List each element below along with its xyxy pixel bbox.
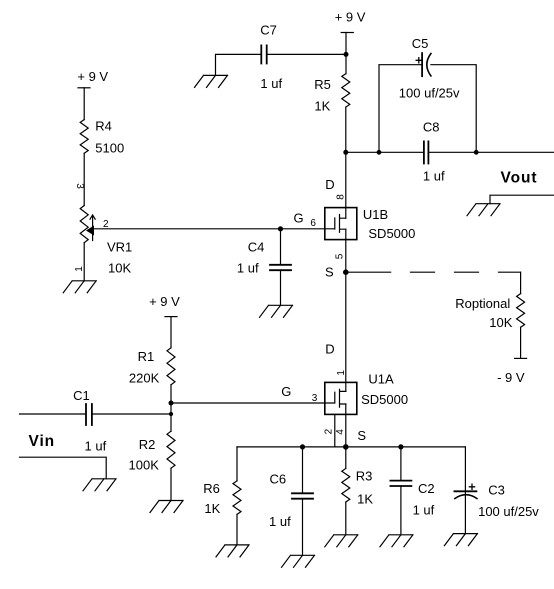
- wire R5 to drain bus: [345, 107, 347, 152]
- capacitor C8: [424, 141, 429, 163]
- svg-text:6: 6: [310, 218, 316, 229]
- wire ground to C7: [216, 54, 262, 75]
- node C2/bus: [398, 444, 403, 449]
- svg-text:5: 5: [335, 253, 346, 259]
- svg-text:VR1: VR1: [107, 239, 132, 254]
- wire C1 to node: [92, 413, 171, 415]
- wire C4 to ground: [280, 270, 282, 305]
- pin 2 of VR1: [103, 219, 109, 230]
- pin 1: [336, 370, 347, 376]
- svg-text:5100: 5100: [95, 140, 124, 155]
- capacitor C1: [86, 404, 92, 425]
- resistor R1: [167, 348, 175, 385]
- svg-text:2: 2: [103, 219, 109, 230]
- ground (R2): [150, 501, 183, 513]
- potentiometer VR1: [80, 206, 88, 243]
- power +9V (top center): [335, 10, 366, 25]
- svg-text:1: 1: [336, 370, 347, 376]
- svg-text:1 uf: 1 uf: [423, 168, 445, 183]
- pin S label U1B: [325, 265, 334, 280]
- svg-text:C1: C1: [73, 388, 90, 403]
- resistor R2: [167, 431, 175, 468]
- svg-text:100 uf/25v: 100 uf/25v: [478, 504, 539, 519]
- svg-text:1K: 1K: [357, 492, 373, 507]
- pin 5: [335, 253, 346, 259]
- Vin ground stub: [20, 457, 107, 479]
- mosfet U1B: [325, 208, 357, 240]
- node pin4/bus: [343, 444, 349, 450]
- Vout ground stub: [490, 195, 554, 204]
- svg-text:C4: C4: [248, 240, 265, 255]
- svg-text:C6: C6: [270, 472, 287, 487]
- capacitor C2: [390, 481, 411, 486]
- wire C7 to R5 node: [267, 53, 346, 55]
- pin D label U1A: [325, 342, 334, 357]
- svg-text:R3: R3: [356, 469, 373, 484]
- mosfet U1A: [325, 382, 357, 414]
- ground (Vin): [83, 479, 116, 491]
- wire Roptional to -9V: [520, 327, 522, 358]
- capacitor C4: [270, 265, 291, 270]
- wire VR1 to ground: [83, 243, 85, 281]
- VR1 wiper arrow: [90, 215, 95, 241]
- wire R4 to VR1: [83, 153, 85, 205]
- svg-text:3: 3: [74, 183, 85, 189]
- Vout label: [501, 170, 538, 187]
- node C7/R5 junction: [344, 52, 349, 57]
- ground (C4): [260, 305, 293, 317]
- pin 4: [335, 429, 346, 435]
- wire dashed segment to Roptional: [411, 271, 521, 273]
- Vin label: [29, 433, 56, 450]
- wire U1B source down: [345, 229, 347, 391]
- svg-text:1 uf: 1 uf: [269, 514, 291, 529]
- svg-text:220K: 220K: [129, 371, 160, 386]
- svg-text:4: 4: [335, 429, 346, 435]
- drain bus wire to right edge: [346, 151, 554, 153]
- node R5/D junction: [343, 150, 348, 155]
- node C1 wire: [169, 412, 173, 416]
- svg-text:R6: R6: [203, 481, 220, 496]
- pin 2 wire U1A: [334, 414, 336, 447]
- node C5 left leg: [377, 150, 382, 155]
- resistor Roptional: [517, 294, 525, 328]
- wire C5 loop right: [431, 65, 476, 153]
- svg-text:S: S: [325, 265, 334, 280]
- wire S node solid segment: [346, 271, 391, 273]
- ground (R6): [216, 545, 249, 557]
- wire bus to C3: [464, 447, 466, 534]
- svg-text:SD5000: SD5000: [361, 392, 408, 407]
- resistor R3: [342, 468, 350, 502]
- svg-text:R2: R2: [139, 437, 156, 452]
- pin 3 of VR1: [74, 183, 85, 189]
- svg-text:C7: C7: [260, 23, 277, 38]
- wire VR1 wiper to U1B gate: [93, 228, 325, 230]
- svg-text:Roptional: Roptional: [455, 296, 510, 311]
- wire R1 to node: [170, 385, 172, 431]
- svg-text:1 uf: 1 uf: [260, 76, 282, 91]
- svg-text:1 uf: 1 uf: [237, 261, 259, 276]
- svg-text:R1: R1: [138, 349, 155, 364]
- pin S label U1A: [357, 428, 366, 443]
- wire R1/R2 node to U1A gate: [171, 402, 325, 404]
- svg-text:D: D: [325, 177, 334, 192]
- pin 8: [336, 194, 347, 200]
- wire +9V down to R5: [345, 33, 347, 74]
- svg-text:C8: C8: [423, 120, 440, 135]
- wire +9V to R1: [170, 317, 172, 348]
- svg-text:1K: 1K: [314, 98, 330, 113]
- wire bus to C6: [302, 447, 304, 493]
- svg-text:S: S: [357, 428, 366, 443]
- resistor R4: [80, 120, 88, 154]
- ground (C2): [380, 535, 413, 547]
- ground (R3): [325, 535, 358, 547]
- node C5 right leg: [474, 150, 479, 155]
- wire Vin input: [20, 413, 86, 415]
- capacitor C3 (polarized): [454, 490, 476, 492]
- capacitor C6: [292, 493, 313, 498]
- wire Roptional top: [520, 272, 522, 293]
- pin 1 of VR1: [74, 266, 85, 272]
- svg-text:U1A: U1A: [368, 372, 394, 387]
- pin 3: [312, 393, 318, 404]
- pin 6: [310, 218, 316, 229]
- svg-text:+ 9 V: + 9 V: [77, 69, 108, 84]
- pin 4 wire U1A: [345, 404, 347, 468]
- ground (C7): [195, 75, 228, 87]
- capacitor C5 (polarized): [421, 53, 423, 76]
- ground (Vout): [467, 204, 500, 216]
- node C4 on gate wire: [278, 226, 283, 231]
- pin G label U1B: [294, 211, 304, 226]
- ground (C3): [444, 534, 477, 546]
- power +9V (left, R4 branch): [77, 69, 108, 84]
- power +9V (R1 branch): [149, 294, 180, 309]
- svg-text:D: D: [325, 342, 334, 357]
- svg-text:1: 1: [74, 266, 85, 272]
- wire R3 to ground: [345, 502, 347, 535]
- svg-text:10K: 10K: [108, 261, 131, 276]
- svg-text:R4: R4: [95, 119, 112, 134]
- wire C2 to ground: [400, 486, 402, 535]
- svg-text:+ 9 V: + 9 V: [335, 10, 366, 25]
- capacitor C7: [261, 45, 266, 63]
- resistor R5: [342, 74, 350, 107]
- svg-text:- 9 V: - 9 V: [497, 370, 525, 385]
- svg-text:SD5000: SD5000: [368, 226, 415, 241]
- ground (VR1): [63, 281, 96, 293]
- svg-text:1K: 1K: [204, 501, 220, 516]
- svg-text:G: G: [294, 211, 304, 226]
- svg-text:8: 8: [336, 194, 347, 200]
- node C6/bus: [300, 444, 305, 449]
- pin 2: [324, 428, 335, 434]
- wire C6 to ground: [302, 499, 304, 556]
- wire R2 to ground: [170, 468, 172, 500]
- node gate wire: [169, 401, 174, 406]
- pin G label U1A: [281, 384, 291, 399]
- svg-text:10K: 10K: [489, 315, 512, 330]
- source bus: [237, 446, 465, 448]
- wire gate node to C4: [280, 229, 282, 264]
- wire R6 to ground: [236, 514, 238, 545]
- pin D label U1B: [325, 177, 334, 192]
- svg-text:1 uf: 1 uf: [413, 502, 435, 517]
- svg-text:1 uf: 1 uf: [85, 439, 107, 454]
- svg-text:C2: C2: [418, 481, 435, 496]
- svg-text:G: G: [281, 384, 291, 399]
- svg-text:2: 2: [324, 428, 335, 434]
- svg-text:R5: R5: [314, 77, 331, 92]
- svg-text:Vin: Vin: [29, 433, 56, 450]
- node S of U1B: [343, 269, 349, 275]
- wire bus to U1B drain: [345, 152, 347, 218]
- svg-text:+ 9 V: + 9 V: [149, 294, 180, 309]
- svg-text:100K: 100K: [129, 458, 160, 473]
- wire bus to C2: [400, 447, 402, 481]
- wire +9V to R4: [83, 88, 85, 120]
- wire C5 loop left: [379, 65, 422, 153]
- svg-text:C5: C5: [412, 36, 429, 51]
- wire bus to R6: [236, 447, 238, 481]
- power -9V terminal: [515, 357, 527, 359]
- ground (C6): [282, 555, 315, 567]
- svg-text:U1B: U1B: [363, 207, 388, 222]
- svg-text:C3: C3: [488, 482, 505, 497]
- svg-text:100 uf/25v: 100 uf/25v: [399, 86, 460, 101]
- resistor R6: [233, 481, 241, 515]
- svg-text:Vout: Vout: [501, 170, 538, 187]
